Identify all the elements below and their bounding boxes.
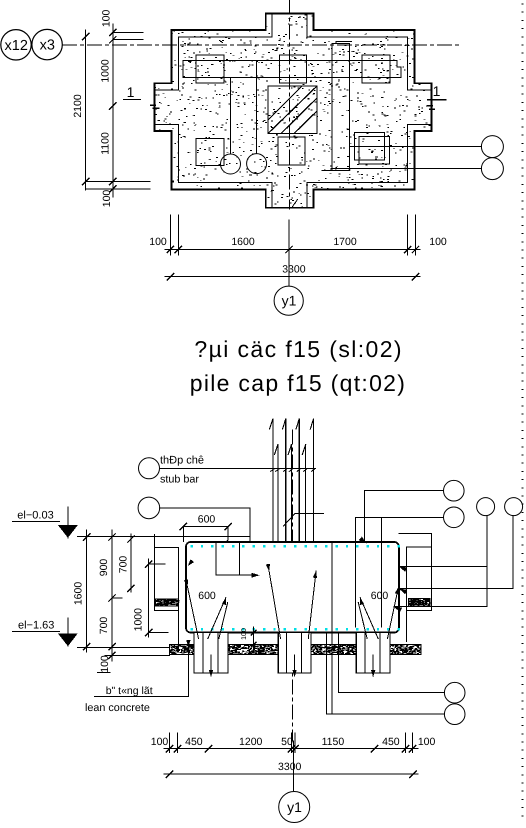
svg-text:1700: 1700 [333, 236, 357, 248]
leader circle R3 [477, 498, 495, 516]
stub bars right (section) [356, 491, 382, 627]
grid axis vertical y1 (plan) [289, 0, 291, 209]
leader to detail circles right (plan) [350, 146, 482, 148]
level line el-1.63 [78, 647, 169, 649]
rebar band horizontal (plan) [183, 61, 401, 78]
svg-text:3300: 3300 [282, 264, 306, 276]
svg-text:1100: 1100 [100, 132, 112, 155]
svg-text:100: 100 [101, 9, 113, 27]
svg-text:pile cap f15 (qt:02): pile cap f15 (qt:02) [190, 370, 407, 396]
pile P3 top-right (plan) [362, 55, 390, 83]
stub bar hooks in cap (left) [216, 542, 257, 575]
svg-text:?µi cäc f15 (sl:02): ?µi cäc f15 (sl:02) [194, 336, 403, 362]
rebar circle A (plan) [221, 154, 241, 174]
pile anchorage bars center pile [269, 571, 316, 639]
bar hooks bottom of stub bars [237, 623, 285, 625]
svg-text:100: 100 [149, 236, 167, 248]
dimension 3300 (plan) [165, 276, 420, 278]
detail circle 1 (plan right) [481, 136, 503, 158]
pile cap edge (plan, inner outline) [154, 14, 431, 208]
dimension 700 (section, inner) [130, 534, 132, 592]
svg-text:thÐp chê: thÐp chê [160, 455, 204, 467]
svg-text:1600: 1600 [231, 236, 255, 248]
detail circle 2 (plan right) [481, 158, 503, 180]
svg-text:50: 50 [281, 736, 293, 748]
dimension 1000 (section, inner) [148, 559, 150, 637]
svg-text:900: 900 [98, 559, 110, 577]
grid bubble x12 [1, 30, 31, 60]
dimension chain left (plan): 100/1000/1100/100 [112, 24, 114, 197]
svg-text:450: 450 [382, 736, 400, 748]
pile anchorage bars left pile [188, 587, 228, 639]
svg-text:450: 450 [185, 736, 203, 748]
leader circle R2 [444, 507, 465, 528]
dimension 1600 (section left) [86, 530, 88, 652]
pile P6 bottom-right (plan, double square) [355, 133, 385, 160]
pile 1 (section) [194, 633, 228, 674]
dimension chain bottom (plan): 100/1600/1700/100 [165, 249, 420, 251]
svg-text:100: 100 [429, 236, 447, 248]
rebar circle B (plan) [247, 154, 267, 174]
tie beam hatch right [409, 599, 430, 607]
axis bubble y1 (plan) [274, 286, 303, 315]
pile P1 top-left (plan) [196, 55, 224, 83]
svg-text:y1: y1 [287, 799, 302, 815]
svg-text:el−0.03: el−0.03 [17, 510, 53, 522]
page border dotted (right) [521, 4, 524, 816]
svg-text:700: 700 [118, 556, 130, 574]
pile cap body (section) [186, 542, 399, 633]
column (plan, hatched) [268, 86, 317, 134]
svg-text:100: 100 [418, 736, 436, 748]
pile 3 (section) [356, 633, 390, 674]
svg-text:y1: y1 [282, 293, 297, 309]
pile P4 bottom-left (plan) [196, 139, 224, 166]
lean concrete layer (section, speckled) [169, 645, 421, 655]
svg-text:3300: 3300 [278, 761, 302, 773]
svg-text:x12: x12 [5, 38, 28, 54]
svg-text:stub bar: stub bar [160, 474, 199, 486]
grid bubble x3 [32, 29, 62, 59]
rebar marker dots (cyan) [191, 545, 193, 547]
leader circle R4 [505, 498, 523, 516]
dimension 600 (top-left of section) [183, 526, 228, 528]
svg-text:600: 600 [198, 590, 216, 602]
tie beam outline right [399, 534, 432, 642]
svg-text:100: 100 [241, 628, 248, 640]
concrete stipple texture (plan) [155, 14, 432, 207]
svg-text:lean concrete: lean concrete [85, 702, 150, 714]
svg-text:1: 1 [433, 83, 441, 99]
svg-text:1200: 1200 [239, 736, 263, 748]
tie beam hatch left [155, 599, 178, 606]
pile anchorage bars right pile [358, 587, 398, 639]
svg-text:2100: 2100 [72, 94, 84, 118]
lean concrete outline (plan, outer cross) [154, 14, 431, 208]
leader circle thep cho / stub bar [139, 458, 160, 479]
svg-text:1150: 1150 [322, 736, 345, 748]
svg-text:el−1.63: el−1.63 [18, 620, 54, 632]
axis y1 vertical (section) [292, 430, 294, 741]
grid axis horizontal through x12/x3 [63, 44, 461, 46]
leader circle B1 [444, 682, 465, 703]
axis bubble y1 (section) [279, 792, 310, 823]
break tick on bottom stub (plan) [293, 200, 298, 207]
dimension chain 900/700/100 (section) [111, 530, 113, 661]
leader circle B2 [444, 704, 465, 725]
pile P5 bottom-center (plan) [278, 137, 305, 165]
column stub bars (section top) [270, 419, 314, 622]
pile 2 (section) [278, 633, 311, 674]
leader circle 2 (left) [138, 497, 160, 519]
tie beam outline left [154, 535, 178, 648]
svg-text:1600: 1600 [73, 582, 85, 606]
svg-text:1: 1 [127, 84, 135, 100]
svg-text:100: 100 [101, 190, 113, 208]
svg-text:600: 600 [371, 590, 389, 602]
leader circle R1 [444, 480, 465, 501]
label lean concrete [97, 672, 109, 674]
rebar leader lines to circles (plan) [230, 61, 256, 155]
pile P2 top-center (plan) [280, 55, 307, 83]
svg-text:100: 100 [99, 655, 111, 673]
dimension chain bottom (section): 100/450/1200/50/1150/450/100 [164, 748, 418, 750]
svg-text:1000: 1000 [100, 59, 112, 83]
svg-text:b" t«ng lãt: b" t«ng lãt [106, 685, 153, 697]
svg-text:600: 600 [198, 514, 216, 526]
dimension 2100 overall (plan) [85, 30, 87, 190]
level line el-0.03 [78, 535, 250, 537]
svg-text:1000: 1000 [133, 608, 145, 632]
svg-text:700: 700 [98, 617, 110, 635]
svg-text:x3: x3 [40, 38, 55, 54]
svg-text:100: 100 [151, 736, 169, 748]
dimension 3300 (section) [164, 773, 418, 775]
rebar band vertical (plan) [322, 42, 351, 171]
break mark on stub bars [284, 514, 324, 527]
